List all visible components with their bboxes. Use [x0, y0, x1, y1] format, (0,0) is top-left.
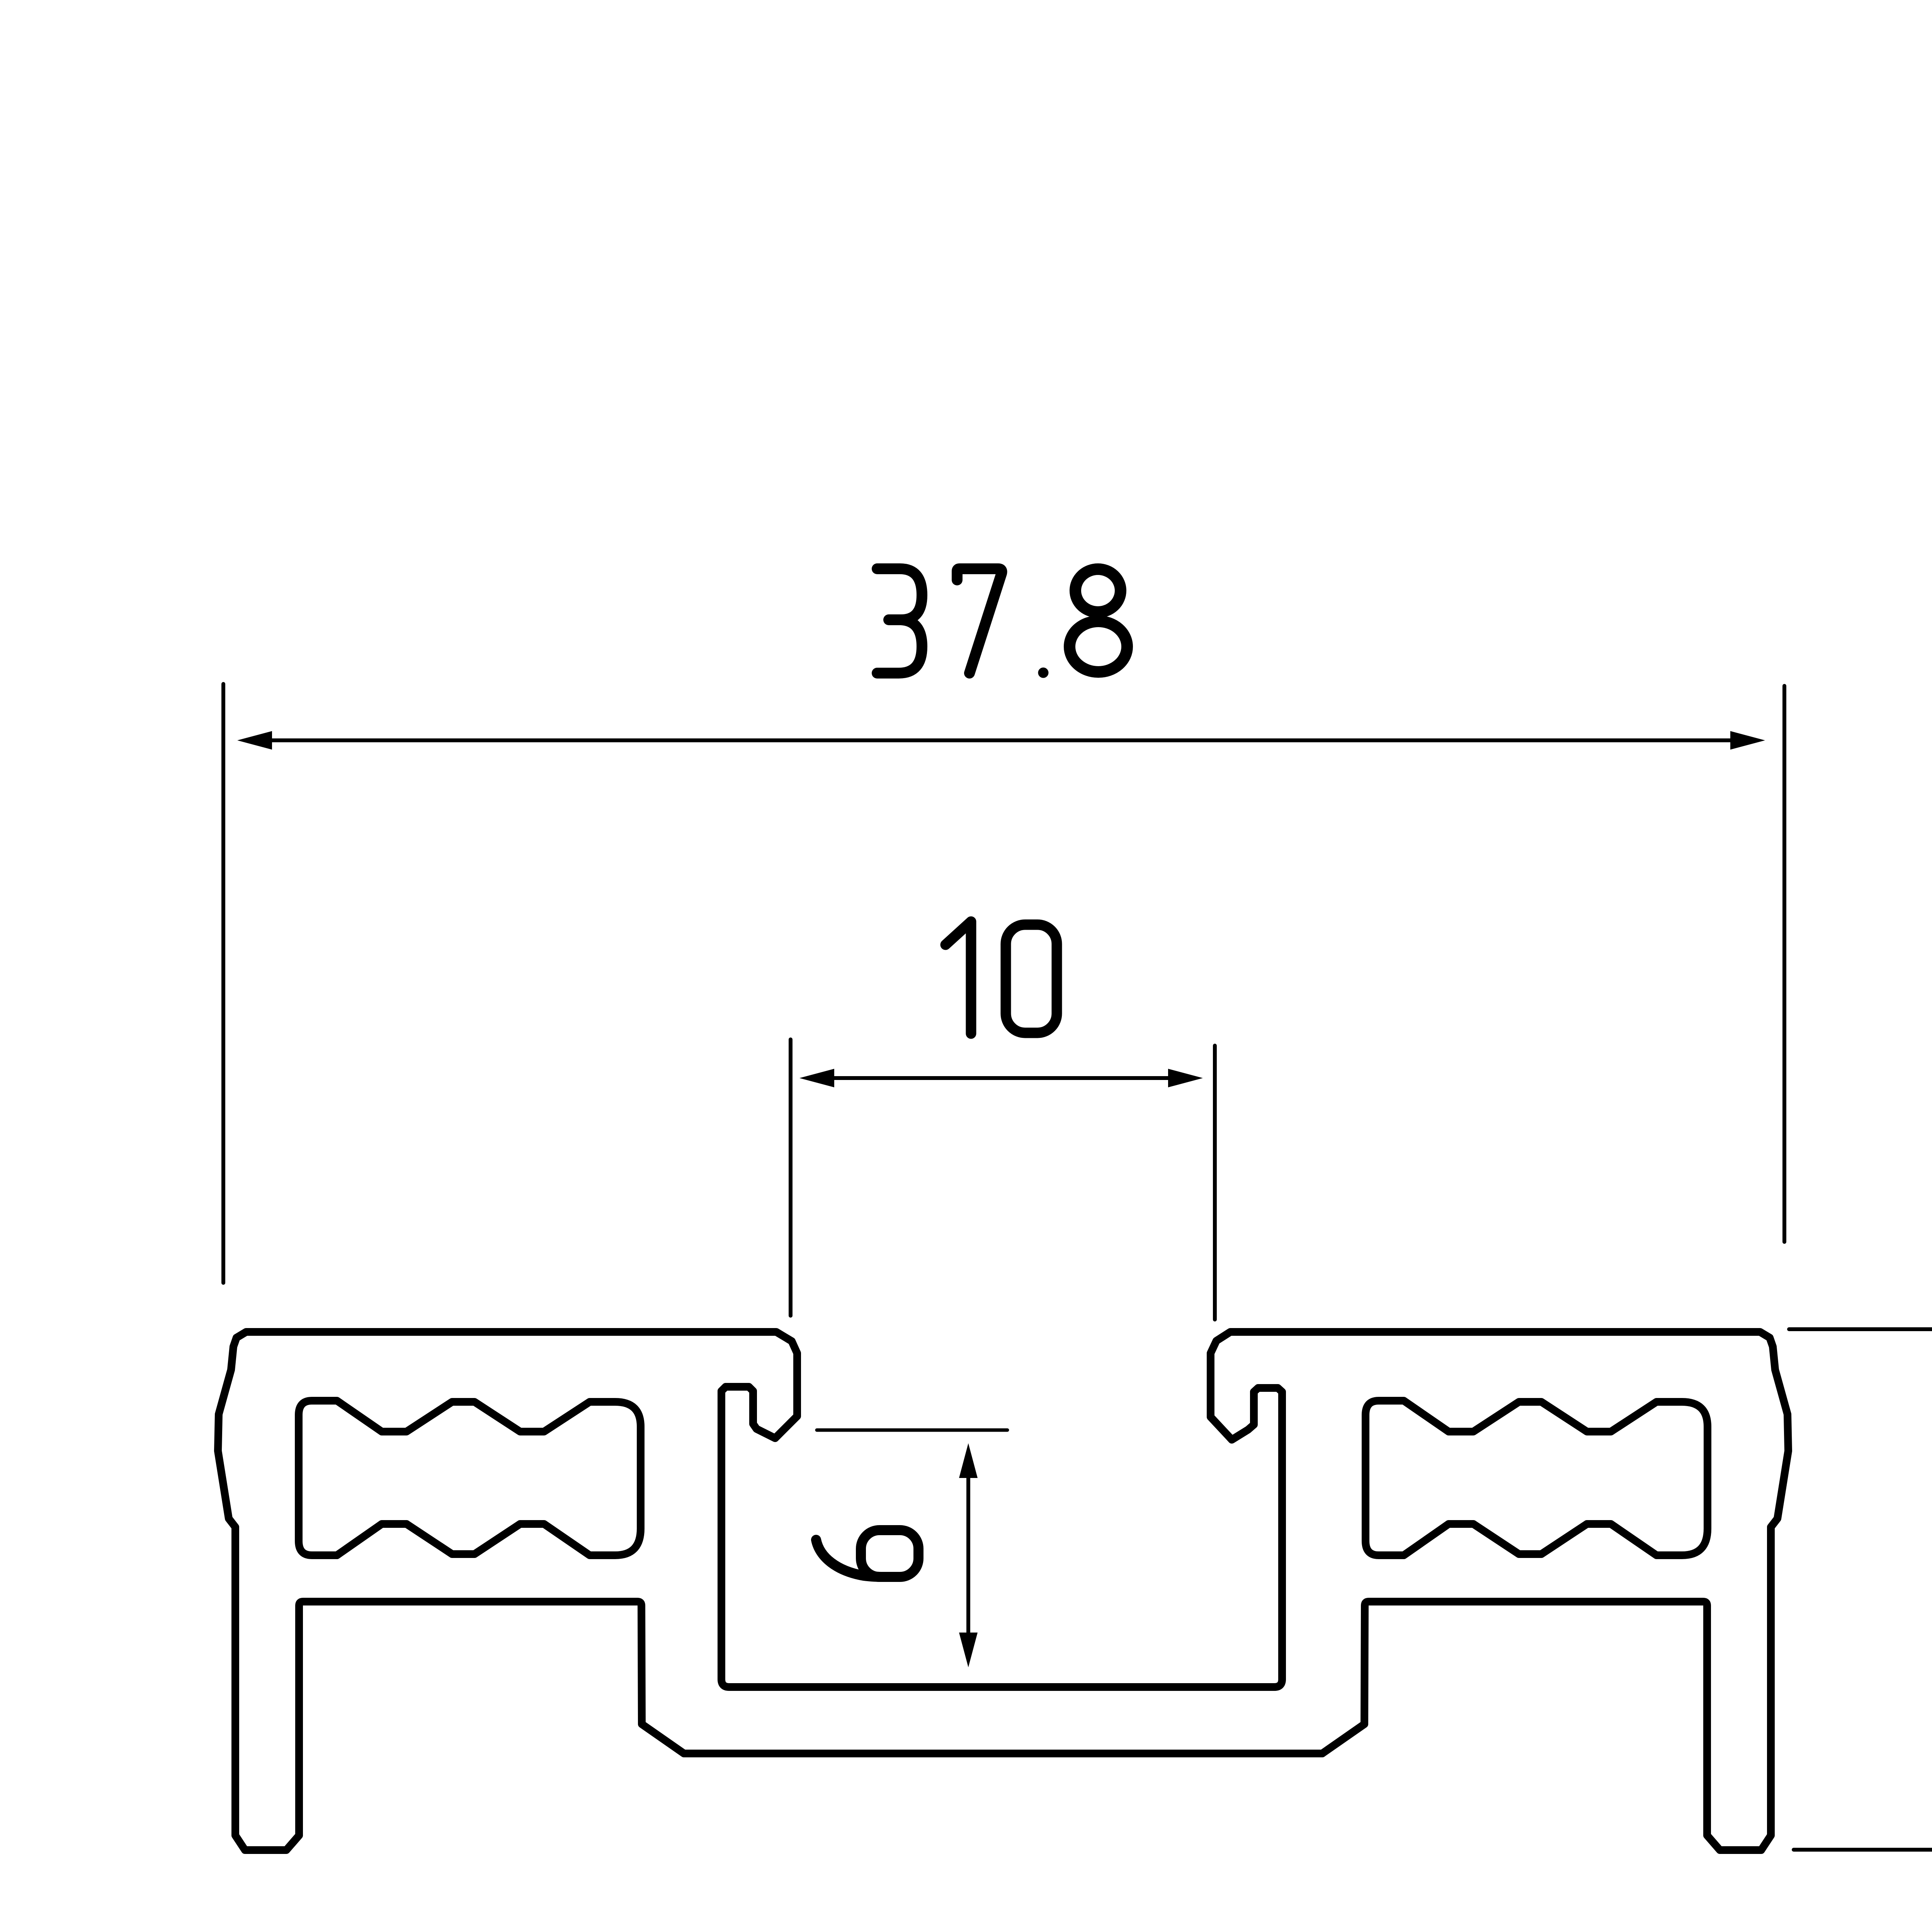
dimension 6: reference line [817, 1429, 1007, 1432]
dimension 10: right extension line [1213, 1046, 1217, 1320]
right knurl hole [1366, 1401, 1708, 1555]
dimension 10: left arrowhead [799, 1069, 834, 1087]
dimension 6: top arrowhead [959, 1443, 978, 1478]
dimension 37.8: left arrowhead [237, 731, 272, 750]
dimension 37.8: left extension line [221, 684, 225, 1283]
dimension 10: label [946, 922, 1057, 1034]
dimension 12.5: bottom extension line [1794, 1848, 1932, 1852]
dimension 6: label [816, 1530, 918, 1577]
dimension 10: left extension line [789, 1039, 793, 1316]
dimension 12.5: top extension line [1789, 1327, 1932, 1331]
profile outline [218, 1332, 1788, 1850]
dimension 37.8: right extension line [1782, 686, 1786, 1242]
dimension 6: dimension line [966, 1476, 970, 1634]
dimension 37.8: right arrowhead [1730, 731, 1765, 750]
dimension 6: bottom arrowhead [959, 1633, 978, 1667]
dimension 37.8: label [877, 569, 1127, 678]
left knurl hole [299, 1401, 641, 1555]
dimension 37.8: dimension line [270, 738, 1732, 742]
dimension 10: right arrowhead [1168, 1069, 1203, 1087]
dimension 10: dimension line [833, 1076, 1170, 1080]
